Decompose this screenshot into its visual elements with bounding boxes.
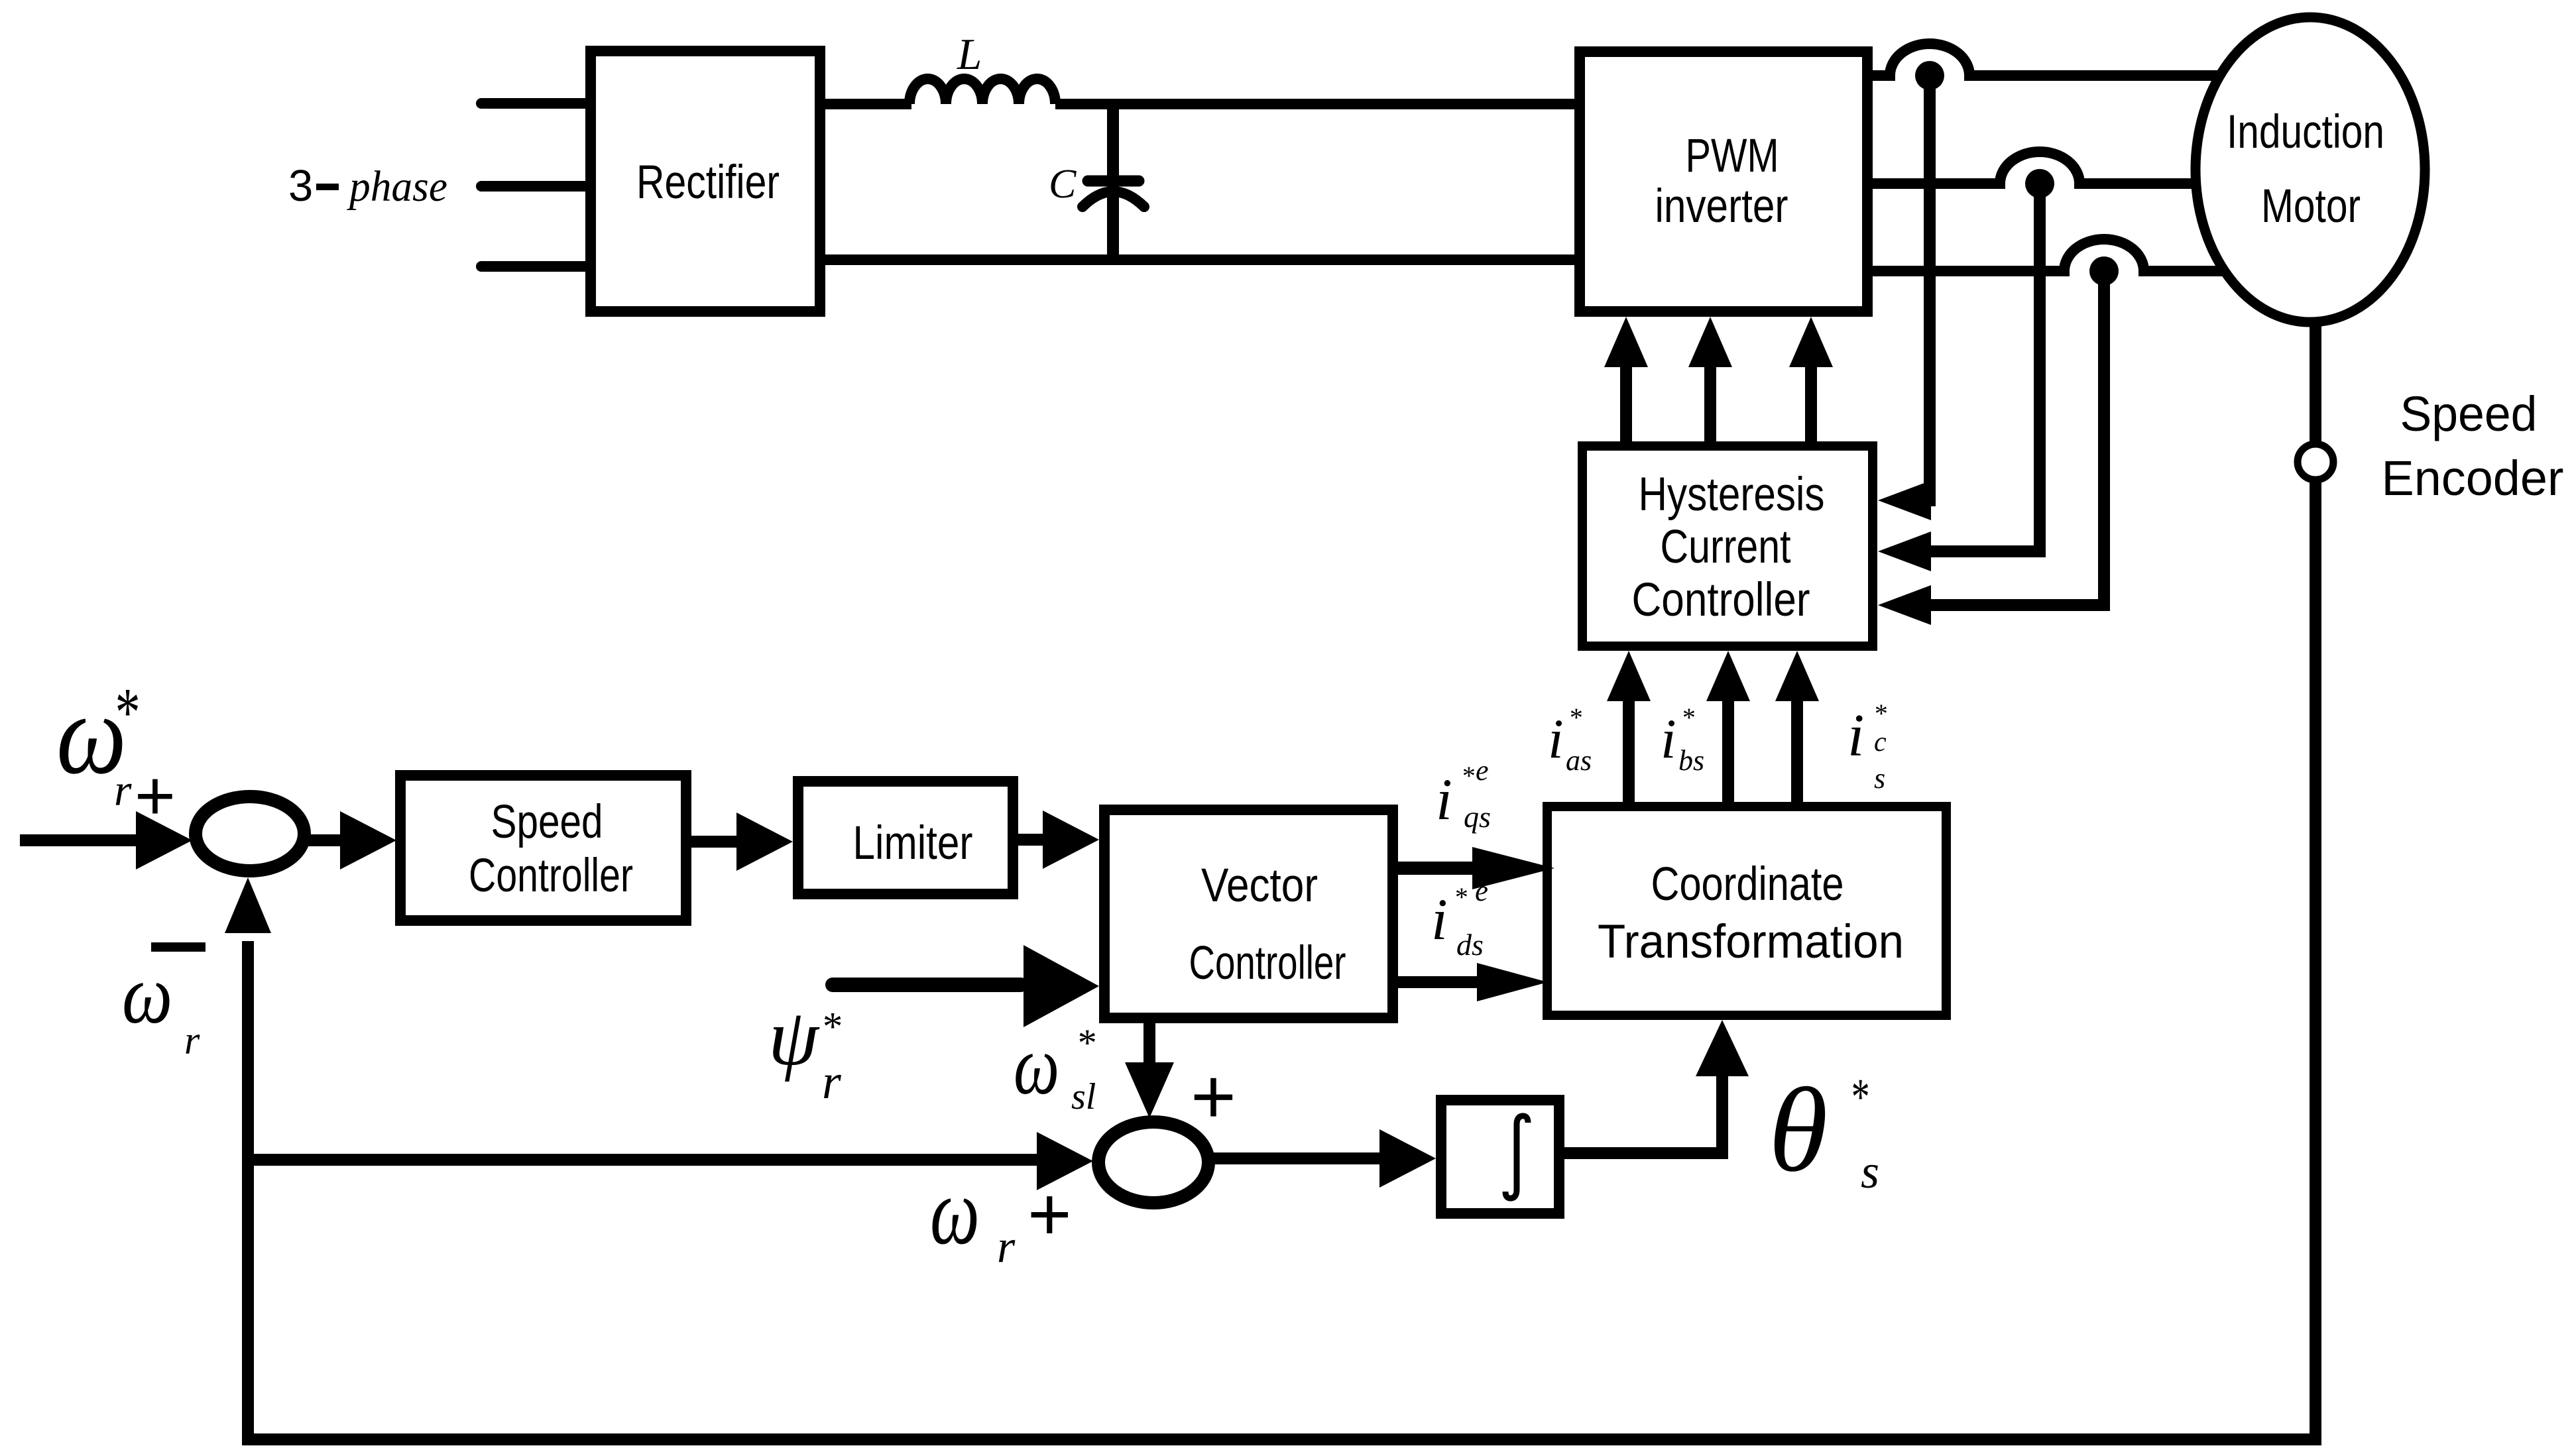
label omega_r feedback (930, 1158, 1016, 1272)
arrow feedback ias into hysteresis (1878, 480, 1931, 520)
PWM inverter box (1580, 52, 1867, 311)
svg-text:i: i (1847, 702, 1864, 769)
arrow junction 2 to integrator (1214, 1129, 1436, 1188)
wire 3-phase input line 1 (481, 98, 587, 109)
wire integrator to coordinate transformation (1564, 1070, 1722, 1153)
label psi_r* (768, 993, 842, 1109)
arrow feedback ics into hysteresis (1878, 585, 2104, 625)
label omega_r estimated (122, 948, 200, 1062)
wire 3-phase input line 3 (481, 261, 587, 272)
svg-text:r: r (997, 1221, 1016, 1272)
svg-text:ω: ω (930, 1158, 980, 1264)
rectifier box (591, 51, 820, 311)
label i*bs (1661, 702, 1704, 777)
svg-text:Motor: Motor (2261, 180, 2361, 233)
svg-text:i: i (1661, 708, 1676, 770)
svg-text:+: + (1191, 1053, 1236, 1141)
hysteresis current controller box (1582, 446, 1873, 646)
svg-text:*: * (821, 1005, 841, 1049)
svg-text:Controller: Controller (469, 850, 633, 902)
svg-text:e: e (1475, 874, 1488, 907)
svg-text:bs: bs (1678, 744, 1704, 777)
arrow hysteresis to PWM 2 (1688, 317, 1732, 441)
label i*cs (1847, 699, 1887, 795)
svg-text:θ: θ (1769, 1064, 1828, 1197)
svg-text:Rectifier: Rectifier (636, 156, 780, 209)
label PWM inverter (1655, 130, 1788, 233)
inductor L coil (909, 79, 1055, 104)
wire 3-phase input line 2 (481, 181, 587, 192)
svg-text:3: 3 (288, 161, 313, 211)
svg-text:s: s (1861, 1145, 1879, 1198)
arrow speed controller to limiter (691, 812, 793, 871)
svg-text:Encoder: Encoder (2382, 451, 2564, 506)
label Speed Encoder (2382, 386, 2564, 506)
wire top DC bus rectifier to inductor (825, 99, 911, 109)
svg-text:s: s (1874, 762, 1885, 795)
wire motor shaft to encoder and bottom feedback loop (248, 199, 2315, 1439)
svg-text:Controller: Controller (1189, 937, 1346, 989)
svg-text:Speed: Speed (2400, 386, 2538, 441)
speed controller box (400, 775, 686, 921)
svg-text:*: * (1568, 702, 1582, 732)
svg-text:*: * (1681, 702, 1694, 732)
svg-text:ψ: ψ (768, 993, 820, 1082)
arrow junction1 to speed controller (308, 811, 396, 869)
svg-text:C: C (1049, 162, 1077, 207)
svg-text:ω: ω (122, 948, 172, 1041)
vector controller box (1104, 810, 1393, 1018)
summing junction 1 (196, 797, 304, 871)
wire sensor c drop (2098, 271, 2110, 605)
svg-text:PWM: PWM (1686, 130, 1779, 182)
arrow theta into coordinate transformation (1696, 1020, 1749, 1076)
svg-text:phase: phase (347, 162, 447, 211)
arrow hysteresis to PWM 3 (1789, 317, 1833, 441)
label theta_s* (1769, 1064, 1879, 1198)
induction motor ellipse (2195, 17, 2425, 322)
label Speed Controller (469, 796, 633, 902)
svg-text:L: L (957, 30, 982, 79)
label iqs*e (1436, 754, 1491, 834)
arrow iqs* from vector controller to coordinate transformation (1398, 847, 1554, 889)
svg-text:r: r (114, 765, 132, 815)
wire sensor b drop (2034, 184, 2046, 551)
label integral (1505, 1116, 1528, 1198)
label Induction Motor (2227, 106, 2384, 233)
svg-text:inverter: inverter (1655, 180, 1788, 233)
label Coordinate Transformation (1598, 858, 1904, 968)
label i*as (1548, 702, 1592, 777)
limiter box (798, 781, 1013, 894)
svg-text:Vector: Vector (1201, 860, 1318, 912)
svg-text:sl: sl (1071, 1076, 1096, 1117)
wire phase line c PWM to motor (1873, 239, 2254, 271)
coordinate transformation box (1547, 807, 1946, 1015)
arrow ias* into hysteresis bottom (1607, 651, 1651, 802)
svg-text:i: i (1548, 708, 1564, 770)
label 3-phase (288, 161, 447, 211)
svg-text:Current: Current (1661, 521, 1791, 573)
svg-text:*: * (113, 673, 138, 751)
svg-text:Controller: Controller (1632, 574, 1810, 626)
svg-text:ω: ω (1014, 1019, 1059, 1112)
svg-text:r: r (822, 1055, 842, 1109)
arrow ics* into hysteresis bottom (1775, 651, 1819, 802)
label ids*e (1431, 874, 1488, 962)
svg-text:+: + (1027, 1172, 1072, 1257)
wire phase line a PWM to motor (1873, 44, 2254, 76)
current sensor dot a (1915, 61, 1944, 90)
wire sensor a drop (1924, 76, 1936, 500)
current sensor dot b (2025, 169, 2054, 198)
svg-text:i: i (1431, 887, 1448, 952)
svg-text:*: * (1454, 882, 1467, 912)
svg-text:Induction: Induction (2227, 106, 2384, 158)
svg-text:e: e (1476, 754, 1489, 787)
svg-text:Limiter: Limiter (853, 817, 973, 869)
label Hysteresis Current Controller (1632, 469, 1825, 626)
capacitor C top plate (1088, 176, 1139, 187)
minus sign feedback (151, 942, 205, 952)
svg-text:*: * (1076, 1021, 1095, 1064)
arrow speed reference into junction (20, 811, 192, 869)
svg-text:as: as (1566, 744, 1592, 777)
arrow feedback ibs into hysteresis (1878, 532, 2040, 571)
svg-text:*: * (1461, 761, 1474, 791)
arrow ibs* into hysteresis bottom (1706, 651, 1750, 802)
svg-text:r: r (184, 1019, 200, 1062)
svg-text:c: c (1874, 727, 1887, 757)
label Vector Controller (1189, 860, 1346, 989)
wire top DC bus inductor to PWM (1055, 99, 1580, 109)
svg-text:Coordinate: Coordinate (1651, 858, 1844, 911)
integrator box (1441, 1100, 1559, 1213)
capacitor C vertical wire (1107, 104, 1119, 260)
arrow hysteresis to PWM 1 (1604, 317, 1648, 441)
svg-text:Hysteresis: Hysteresis (1639, 469, 1825, 521)
svg-text:i: i (1436, 767, 1452, 832)
label omega_sl* (1014, 1019, 1096, 1117)
capacitor C curved plate (1083, 192, 1144, 207)
arrow limiter to vector controller (1018, 811, 1099, 869)
speed encoder circle (2298, 444, 2333, 480)
wire phase line b PWM to motor (1873, 152, 2254, 184)
arrow feedback into junction 1 from below (225, 877, 271, 933)
label omega_r* reference (56, 671, 138, 815)
arrow speed feedback into junction 2 (248, 1132, 1093, 1190)
wire bottom DC bus (825, 254, 1580, 265)
svg-text:*: * (1873, 699, 1887, 728)
svg-text:*: * (1849, 1068, 1868, 1125)
arrow flux reference into vector controller (833, 945, 1099, 1027)
arrow ids* from vector controller to coordinate transformation (1398, 963, 1548, 1001)
svg-text:ds: ds (1456, 928, 1484, 962)
current sensor dot c (2089, 256, 2119, 286)
arrow omega_sl* from vector controller down to junction 2 (1125, 1023, 1174, 1118)
summing junction 2 (1098, 1122, 1208, 1203)
svg-text:Speed: Speed (491, 796, 603, 848)
svg-text:qs: qs (1464, 800, 1491, 834)
svg-text:Transformation: Transformation (1598, 916, 1904, 968)
